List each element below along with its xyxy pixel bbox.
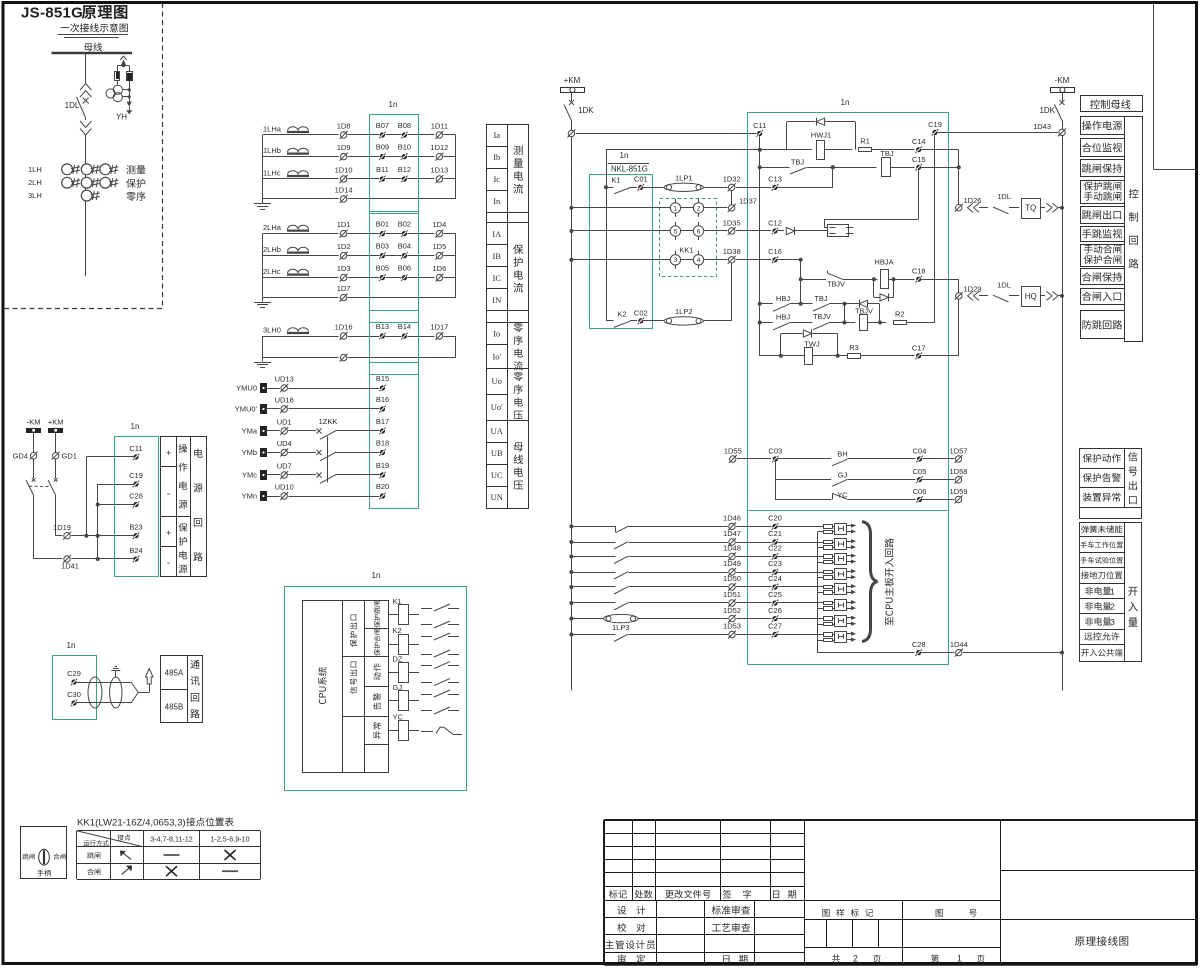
svg-text:B19: B19 bbox=[376, 461, 389, 470]
svg-text:B01: B01 bbox=[376, 220, 389, 229]
svg-text:2LHc: 2LHc bbox=[263, 267, 281, 276]
svg-text:C16: C16 bbox=[768, 247, 782, 256]
svg-text:1LP3: 1LP3 bbox=[612, 623, 630, 632]
svg-text:1D7: 1D7 bbox=[337, 284, 351, 293]
svg-text:4: 4 bbox=[697, 257, 701, 264]
svg-text:HBJ: HBJ bbox=[776, 294, 790, 303]
svg-text:+KM: +KM bbox=[564, 76, 581, 85]
svg-text:B18: B18 bbox=[376, 439, 389, 448]
svg-text:C02: C02 bbox=[634, 308, 648, 317]
svg-text:1D37: 1D37 bbox=[739, 196, 757, 205]
svg-text:1D55: 1D55 bbox=[724, 446, 742, 455]
svg-text:1DK: 1DK bbox=[578, 106, 594, 115]
svg-text:1LHc: 1LHc bbox=[263, 169, 281, 178]
svg-text:1: 1 bbox=[1110, 586, 1115, 596]
svg-text:YC: YC bbox=[837, 490, 848, 499]
svg-text:1D41: 1D41 bbox=[61, 562, 79, 571]
svg-text:1D19: 1D19 bbox=[53, 523, 71, 532]
svg-text:-KM: -KM bbox=[27, 418, 41, 427]
svg-text:GJ: GJ bbox=[393, 683, 403, 692]
svg-text:UN: UN bbox=[491, 492, 503, 502]
svg-text:B24: B24 bbox=[129, 546, 142, 555]
svg-text:B13: B13 bbox=[376, 322, 389, 331]
svg-text:UD13: UD13 bbox=[275, 375, 294, 384]
svg-text:YC: YC bbox=[393, 712, 404, 721]
svg-text:1DL: 1DL bbox=[65, 101, 80, 110]
svg-text:K2: K2 bbox=[617, 309, 626, 318]
svg-text:YMU0: YMU0 bbox=[236, 384, 257, 393]
svg-text:YMb: YMb bbox=[242, 448, 257, 457]
svg-text:1D11: 1D11 bbox=[431, 122, 448, 131]
svg-text:C11: C11 bbox=[753, 121, 766, 130]
svg-text:C22: C22 bbox=[768, 544, 782, 553]
svg-text:GJ: GJ bbox=[838, 471, 848, 480]
svg-text:1n: 1n bbox=[620, 151, 629, 160]
svg-text:485A: 485A bbox=[165, 669, 184, 678]
svg-text:Ib: Ib bbox=[493, 152, 500, 162]
svg-text:C15: C15 bbox=[912, 155, 926, 164]
svg-text:B03: B03 bbox=[376, 242, 389, 251]
svg-text:YMa: YMa bbox=[242, 427, 258, 436]
svg-text:IC: IC bbox=[493, 273, 502, 283]
svg-text:IN: IN bbox=[492, 295, 501, 305]
svg-text:C05: C05 bbox=[913, 467, 927, 476]
svg-text:1D52: 1D52 bbox=[723, 606, 741, 615]
svg-text:1D9: 1D9 bbox=[337, 143, 351, 152]
svg-text:HQ: HQ bbox=[1025, 292, 1037, 301]
svg-text:C29: C29 bbox=[67, 669, 81, 678]
svg-text:TBJ: TBJ bbox=[880, 149, 894, 158]
svg-text:Uo: Uo bbox=[492, 376, 502, 386]
svg-text:C06: C06 bbox=[913, 487, 927, 496]
svg-text:1D38: 1D38 bbox=[723, 247, 741, 256]
svg-text:1D43: 1D43 bbox=[1033, 122, 1051, 131]
svg-text:UD4: UD4 bbox=[277, 439, 292, 448]
svg-text:1D1: 1D1 bbox=[337, 220, 351, 229]
svg-text:B17: B17 bbox=[376, 417, 389, 426]
svg-text:R3: R3 bbox=[849, 343, 859, 352]
svg-text:UD16: UD16 bbox=[275, 396, 294, 405]
svg-text:1: 1 bbox=[957, 954, 962, 964]
svg-text:5: 5 bbox=[674, 228, 678, 235]
svg-text:1n: 1n bbox=[841, 98, 850, 107]
svg-text:1D49: 1D49 bbox=[723, 559, 741, 568]
svg-text:1D5: 1D5 bbox=[433, 242, 447, 251]
svg-text:2: 2 bbox=[1110, 602, 1115, 612]
svg-text:C17: C17 bbox=[912, 343, 926, 352]
svg-text:1D58: 1D58 bbox=[950, 467, 968, 476]
svg-text:2LHb: 2LHb bbox=[263, 245, 281, 254]
svg-text:K2: K2 bbox=[393, 626, 402, 635]
svg-text:C30: C30 bbox=[67, 690, 81, 699]
svg-text:1D32: 1D32 bbox=[723, 175, 741, 184]
svg-text:1D3: 1D3 bbox=[337, 264, 351, 273]
svg-text:NKL-851G: NKL-851G bbox=[611, 165, 648, 174]
svg-text:TQ: TQ bbox=[1025, 204, 1036, 213]
svg-text:C18: C18 bbox=[912, 267, 926, 276]
svg-text:Io: Io bbox=[493, 328, 500, 338]
svg-text:B06: B06 bbox=[398, 264, 411, 273]
svg-text:1LHb: 1LHb bbox=[263, 146, 281, 155]
svg-text:UB: UB bbox=[491, 448, 503, 458]
svg-text:B16: B16 bbox=[376, 395, 389, 404]
svg-text:GD4: GD4 bbox=[13, 452, 28, 461]
svg-text:1ZKK: 1ZKK bbox=[319, 417, 338, 426]
svg-text:3LH: 3LH bbox=[28, 191, 42, 200]
svg-text:IB: IB bbox=[493, 251, 502, 261]
svg-text:C28: C28 bbox=[912, 640, 926, 649]
svg-text:Ia: Ia bbox=[493, 130, 500, 140]
svg-text:C01: C01 bbox=[634, 175, 648, 184]
svg-text:C27: C27 bbox=[768, 622, 782, 631]
svg-text:2: 2 bbox=[697, 205, 701, 212]
svg-text:TBJV: TBJV bbox=[813, 312, 831, 321]
svg-text:KK1: KK1 bbox=[679, 245, 693, 254]
svg-text:1LP2: 1LP2 bbox=[675, 307, 693, 316]
svg-text:C11: C11 bbox=[129, 444, 142, 453]
svg-text:C12: C12 bbox=[768, 218, 782, 227]
svg-text:C25: C25 bbox=[768, 590, 782, 599]
svg-text:B07: B07 bbox=[376, 121, 389, 130]
svg-text:1LH: 1LH bbox=[28, 165, 42, 174]
svg-text:1D12: 1D12 bbox=[430, 143, 448, 152]
svg-text:3: 3 bbox=[674, 257, 678, 264]
svg-text:C13: C13 bbox=[768, 175, 782, 184]
svg-text:B15: B15 bbox=[376, 374, 389, 383]
svg-text:R1: R1 bbox=[860, 137, 870, 146]
svg-text:Ic: Ic bbox=[493, 174, 500, 184]
svg-text:B04: B04 bbox=[398, 242, 411, 251]
svg-text:C14: C14 bbox=[912, 137, 926, 146]
svg-text:R2: R2 bbox=[895, 310, 905, 319]
svg-text:B09: B09 bbox=[376, 143, 389, 152]
svg-text:C28: C28 bbox=[129, 492, 143, 501]
svg-text:3LH0: 3LH0 bbox=[263, 326, 281, 335]
svg-text:C19: C19 bbox=[129, 471, 143, 480]
svg-text:1D48: 1D48 bbox=[723, 544, 741, 553]
svg-text:JS-851G: JS-851G bbox=[21, 5, 83, 22]
svg-text:YMc: YMc bbox=[242, 471, 257, 480]
svg-text:1n: 1n bbox=[131, 422, 140, 431]
svg-text:IA: IA bbox=[492, 229, 502, 239]
svg-text:+KM: +KM bbox=[48, 418, 64, 427]
svg-text:+: + bbox=[166, 528, 171, 538]
svg-text:C24: C24 bbox=[768, 574, 782, 583]
svg-text:1D10: 1D10 bbox=[335, 166, 353, 175]
svg-text:B12: B12 bbox=[398, 165, 411, 174]
svg-text:1-2,5-6,9-10: 1-2,5-6,9-10 bbox=[210, 835, 249, 844]
svg-text:1D51: 1D51 bbox=[723, 590, 741, 599]
svg-text:C19: C19 bbox=[928, 120, 942, 129]
svg-text:-: - bbox=[167, 489, 170, 500]
svg-text:1D46: 1D46 bbox=[723, 514, 741, 523]
svg-text:UD1: UD1 bbox=[277, 418, 292, 427]
svg-text:B08: B08 bbox=[398, 121, 411, 130]
svg-text:TBJ: TBJ bbox=[814, 294, 828, 303]
svg-text:1DL: 1DL bbox=[997, 192, 1011, 201]
svg-text:2LH: 2LH bbox=[28, 178, 42, 187]
svg-text:C20: C20 bbox=[768, 514, 782, 523]
svg-text:1D53: 1D53 bbox=[723, 622, 741, 631]
svg-text:1D50: 1D50 bbox=[723, 574, 741, 583]
svg-text:HBJA: HBJA bbox=[874, 258, 893, 267]
svg-text:6: 6 bbox=[697, 228, 701, 235]
svg-text:K1: K1 bbox=[611, 176, 620, 185]
svg-text:1n: 1n bbox=[389, 100, 398, 109]
svg-text:Uo': Uo' bbox=[491, 402, 503, 412]
svg-text:1D35: 1D35 bbox=[723, 218, 741, 227]
svg-text:GD1: GD1 bbox=[62, 452, 77, 461]
svg-text:1: 1 bbox=[674, 205, 678, 212]
svg-text:1D14: 1D14 bbox=[335, 186, 353, 195]
svg-text:3-4,7-8,11-12: 3-4,7-8,11-12 bbox=[150, 835, 193, 844]
svg-text:2LHa: 2LHa bbox=[263, 223, 282, 232]
svg-text:UD10: UD10 bbox=[275, 483, 294, 492]
svg-text:TBJ: TBJ bbox=[791, 158, 805, 167]
svg-text:1D47: 1D47 bbox=[723, 529, 741, 538]
svg-text:1D4: 1D4 bbox=[433, 220, 447, 229]
svg-text:+: + bbox=[166, 448, 171, 458]
svg-text:-KM: -KM bbox=[1055, 76, 1070, 85]
svg-text:1D13: 1D13 bbox=[430, 166, 448, 175]
svg-text:B11: B11 bbox=[376, 165, 389, 174]
svg-text:UC: UC bbox=[491, 470, 503, 480]
svg-text:YMU0': YMU0' bbox=[235, 405, 258, 414]
svg-text:DZ: DZ bbox=[393, 655, 403, 664]
svg-text:1DL: 1DL bbox=[997, 280, 1011, 289]
svg-text:KK1(LW21-16Z/4,0653,3): KK1(LW21-16Z/4,0653,3) bbox=[77, 818, 186, 829]
svg-text:UD7: UD7 bbox=[277, 462, 292, 471]
svg-text:UA: UA bbox=[491, 426, 504, 436]
svg-text:1D59: 1D59 bbox=[950, 487, 968, 496]
svg-text:B02: B02 bbox=[398, 220, 411, 229]
svg-text:1D16: 1D16 bbox=[335, 323, 353, 332]
svg-text:Io': Io' bbox=[492, 351, 501, 361]
svg-text:BH: BH bbox=[837, 450, 847, 459]
svg-text:B05: B05 bbox=[376, 264, 389, 273]
svg-text:1D8: 1D8 bbox=[337, 122, 351, 131]
svg-text:HBJ: HBJ bbox=[776, 313, 790, 322]
svg-text:In: In bbox=[493, 196, 501, 206]
svg-text:B14: B14 bbox=[398, 322, 411, 331]
svg-text:C03: C03 bbox=[768, 446, 782, 455]
svg-text:1n: 1n bbox=[67, 641, 76, 650]
svg-text:B23: B23 bbox=[129, 523, 142, 532]
svg-text:485B: 485B bbox=[165, 703, 184, 712]
svg-text:1LP1: 1LP1 bbox=[675, 173, 693, 182]
svg-text:C23: C23 bbox=[768, 559, 782, 568]
svg-text:B20: B20 bbox=[376, 482, 389, 491]
svg-text:TBJV: TBJV bbox=[827, 279, 845, 288]
svg-text:1D57: 1D57 bbox=[950, 446, 968, 455]
svg-text:1DK: 1DK bbox=[1039, 106, 1055, 115]
svg-text:1D2: 1D2 bbox=[337, 242, 351, 251]
svg-text:K1: K1 bbox=[393, 597, 402, 606]
svg-text:2: 2 bbox=[853, 954, 858, 964]
svg-text:C04: C04 bbox=[913, 446, 927, 455]
svg-text:3: 3 bbox=[1110, 617, 1115, 627]
svg-text:1D6: 1D6 bbox=[433, 264, 447, 273]
svg-text:C26: C26 bbox=[768, 606, 782, 615]
svg-text:YMn: YMn bbox=[242, 492, 257, 501]
svg-text:1n: 1n bbox=[372, 571, 381, 580]
svg-text:1D17: 1D17 bbox=[430, 323, 448, 332]
svg-text:YH: YH bbox=[116, 113, 127, 122]
svg-text:HWJ1: HWJ1 bbox=[811, 131, 831, 140]
svg-text:C21: C21 bbox=[768, 529, 782, 538]
svg-text:-: - bbox=[167, 558, 170, 569]
svg-text:1D44: 1D44 bbox=[950, 640, 968, 649]
svg-text:B10: B10 bbox=[398, 143, 411, 152]
svg-text:1LHa: 1LHa bbox=[263, 125, 282, 134]
